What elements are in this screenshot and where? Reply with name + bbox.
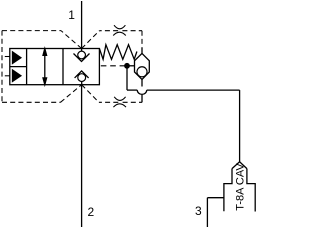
junction dot J1	[124, 63, 130, 69]
seat S1 ball	[78, 51, 86, 59]
valve V1 body outline	[10, 49, 100, 85]
wire pilot line valve to junction	[101, 65, 125, 67]
wire envelope stub to solenoid b	[4, 75, 10, 77]
wire port 3 vertical	[206, 198, 208, 227]
wire envelope bottom diagonal left to port 2	[61, 85, 82, 103]
valve V1 divider arrow/position box	[62, 49, 64, 85]
check valve C1 pocket	[135, 53, 150, 79]
seat S2 stub	[81, 82, 83, 85]
cavity T-8A outline	[224, 162, 255, 212]
svg-text:3: 3	[195, 204, 202, 218]
wire check valve bottom stub	[141, 80, 143, 87]
orifice O2 on bottom envelope line	[113, 97, 126, 107]
wire drain horizontal left	[127, 89, 137, 91]
wire envelope left vertical	[1, 31, 3, 103]
orifice O1 on top envelope line	[113, 25, 126, 35]
spring K1	[99, 45, 136, 60]
seat S1 stub	[81, 49, 83, 52]
wire check valve drop below hop	[141, 95, 143, 103]
cartridge envelope (dashed boundary)	[2, 31, 142, 103]
wire envelope top horizontal right	[99, 30, 118, 32]
actuator double arrow	[44, 54, 46, 79]
wire check valve top stub	[141, 47, 143, 53]
check valve C1 ball	[137, 67, 147, 77]
port 1 line	[81, 1, 83, 49]
wire envelope right vertical to check valve	[141, 31, 143, 48]
wire envelope bottom horizontal right	[99, 101, 118, 103]
valve V1 divider solenoid/arrow box	[26, 49, 28, 85]
wire envelope top horizontal left	[2, 30, 61, 32]
solenoid B triangle	[13, 70, 21, 81]
seat S2 vee	[75, 71, 89, 78]
wire drain horizontal right	[147, 89, 240, 91]
wire envelope bottom horizontal left	[2, 101, 61, 103]
svg-text:2: 2	[88, 205, 95, 219]
port 2 line	[81, 85, 83, 227]
wire junction down	[126, 66, 128, 90]
wire envelope top diagonal left to port 1	[61, 31, 82, 49]
wire hop under crossing	[137, 90, 146, 94]
svg-text:T-8A CAV: T-8A CAV	[234, 163, 246, 211]
solenoid A triangle	[13, 52, 21, 64]
wire envelope top diagonal right from port 1	[82, 31, 100, 49]
seat S1 vee	[74, 54, 90, 62]
wire port 3 horizontal	[207, 197, 224, 199]
wire junction to check valve	[127, 65, 135, 67]
svg-text:1: 1	[68, 8, 75, 22]
valve V1 solenoid mid divider	[10, 66, 27, 68]
seat S2 ball	[78, 74, 86, 82]
wire envelope bottom diagonal right from port 2	[82, 85, 99, 103]
wire drain down to cavity	[239, 90, 241, 162]
wire envelope stub to solenoid a	[4, 56, 10, 58]
